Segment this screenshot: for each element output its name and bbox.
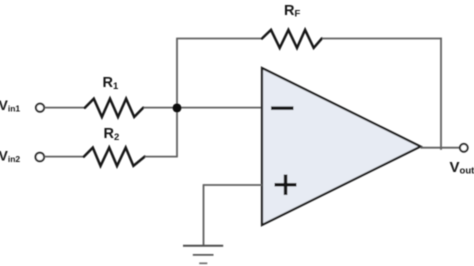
op-amp inverting input marker (minus) (271, 106, 294, 110)
svg-text:Vin1: Vin1 (0, 97, 20, 114)
resistor R2 (84, 148, 145, 166)
wire feedback top left segment (176, 38, 261, 40)
wire R2 to node A vertical riser (145, 156, 178, 158)
wire feedback left vertical (node A up to RF loop) (176, 39, 178, 157)
wire feedback right vertical (440, 38, 442, 150)
wire feedback top right segment (322, 38, 442, 40)
svg-text:R2: R2 (104, 126, 120, 143)
svg-text:Vin2: Vin2 (0, 148, 20, 165)
svg-text:Vout: Vout (450, 159, 474, 177)
svg-text:R1: R1 (103, 75, 119, 92)
resistor R1 (85, 99, 143, 117)
node A junction dot (173, 103, 182, 112)
op-amp U1 (262, 68, 421, 225)
output terminal Vout (460, 144, 468, 152)
svg-text:RF: RF (284, 3, 300, 20)
op-amp non-inverting input marker (plus) (275, 175, 297, 196)
wire non-inverting input horizontal (204, 184, 263, 186)
wire Vin2 to R2 (44, 156, 84, 158)
wire non-inverting input down to ground (203, 184, 205, 246)
wire R1 to node A and on to inverting input (144, 107, 263, 109)
input terminal Vin1 (36, 104, 44, 112)
wire Vin1 to R1 (44, 107, 85, 109)
resistor RF (262, 30, 322, 48)
wire output (421, 147, 461, 149)
ground (183, 246, 223, 263)
input terminal Vin2 (36, 153, 45, 162)
